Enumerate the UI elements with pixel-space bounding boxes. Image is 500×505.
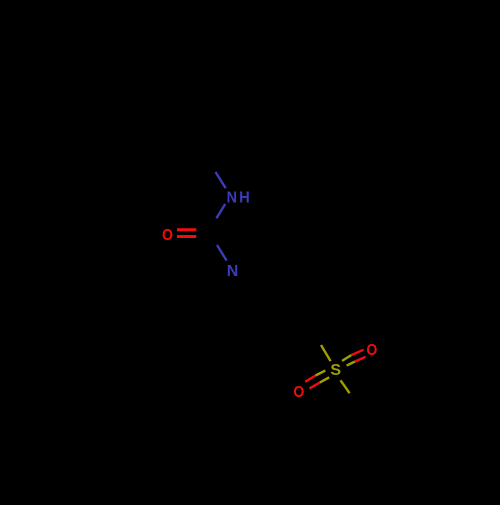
wire: bond carbonyl C to N (blue half)	[217, 245, 227, 261]
svg-text:N: N	[227, 263, 239, 280]
node O (carbonyl oxygen label)	[162, 226, 173, 244]
wire: bond C to S upper-left (yellow half)	[321, 345, 331, 361]
wire: S=O bottom-left double bond line2 S-half (yellow)	[320, 377, 330, 382]
svg-text:O: O	[293, 383, 304, 401]
wire: S=O bottom-left double bond line1 O-half (red)	[305, 376, 315, 382]
node O (sulfonyl oxygen top-right label)	[366, 341, 377, 359]
svg-text:O: O	[366, 341, 377, 359]
wire: S=O top-right double bond line2 O-half (red)	[355, 357, 366, 362]
svg-text:O: O	[162, 226, 173, 244]
node N (imine nitrogen label)	[227, 263, 239, 280]
wire: C=O double bond lower line (red half)	[177, 235, 196, 238]
node NH (amide nitrogen label)	[227, 189, 250, 207]
svg-text:H: H	[239, 189, 250, 207]
wire: S=O bottom-left double bond line2 O-half (red)	[310, 383, 320, 389]
wire: S=O bottom-left double bond line1 S-half (yellow)	[316, 371, 326, 376]
svg-text:N: N	[227, 189, 237, 207]
svg-text:S: S	[330, 362, 341, 379]
node S (sulfonyl sulfur label)	[330, 362, 341, 379]
node O (sulfonyl oxygen bottom-left label)	[293, 383, 304, 401]
wire: S=O top-right double bond line2 S-half (yellow)	[347, 362, 355, 366]
wire: bond NH to carbonyl C (blue half)	[216, 204, 225, 218]
wire: C=O double bond upper line (red half)	[177, 228, 196, 231]
wire: bond S to C lower-right (yellow half)	[341, 380, 350, 393]
wire: S=O top-right double bond line1 O-half (red)	[351, 350, 363, 355]
wire: S=O top-right double bond line1 S-half (yellow)	[342, 355, 351, 361]
wire: bond ring-C to NH (blue half)	[216, 172, 226, 188]
